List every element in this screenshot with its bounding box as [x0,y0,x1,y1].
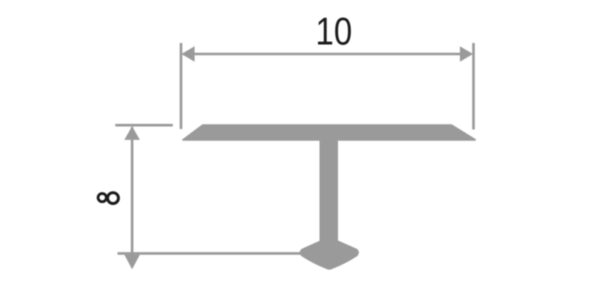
svg-text:10: 10 [316,9,353,53]
